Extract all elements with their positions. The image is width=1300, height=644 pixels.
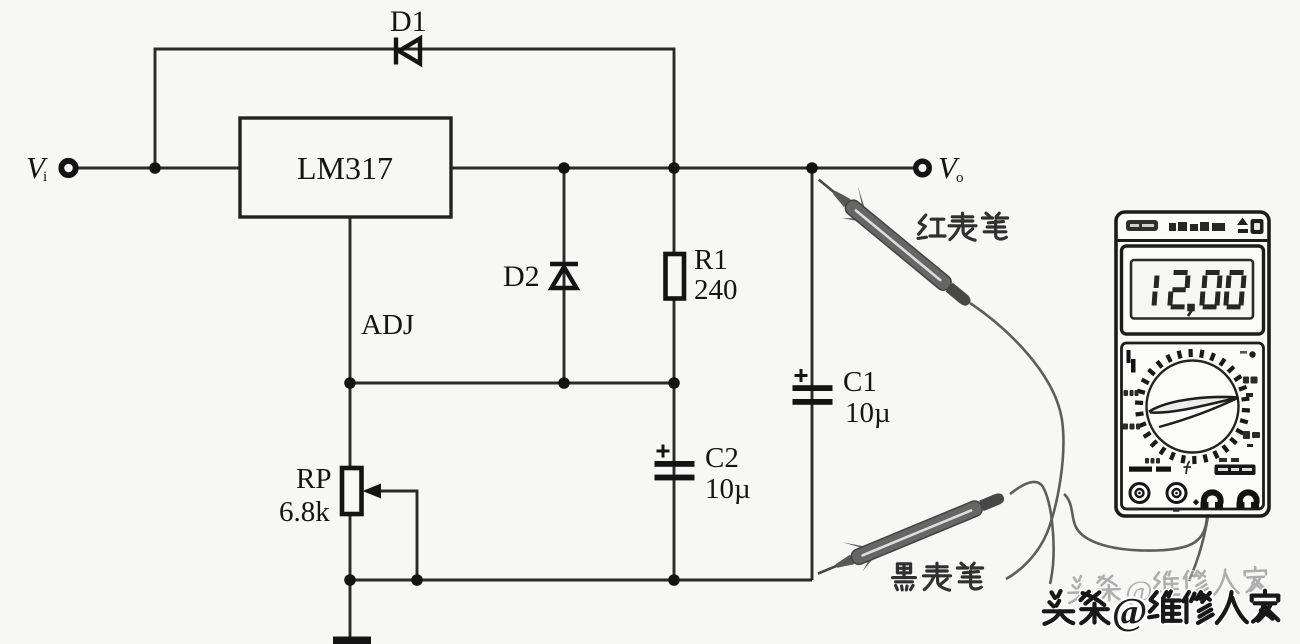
svg-text:C1: C1	[843, 366, 877, 398]
meter display bezel	[1122, 246, 1264, 334]
panel right small mark	[1247, 444, 1253, 447]
input jack 1	[1130, 484, 1149, 503]
node junction dot 6	[558, 377, 570, 389]
node junction dot 8	[344, 574, 356, 586]
svg-text:240: 240	[694, 274, 738, 306]
svg-text:i: i	[43, 169, 47, 185]
wire: meter lead loop	[1064, 494, 1207, 551]
wire: D1 bypass top rail	[155, 49, 674, 168]
LCD decimal point	[1188, 305, 1194, 316]
resistor R1	[666, 254, 685, 299]
wire: LM317 ADJ pin down	[349, 217, 352, 468]
wire: main horizontal rail Vi to LM317	[78, 167, 240, 170]
bar under 10A	[1129, 467, 1152, 472]
black test probe	[810, 478, 1009, 587]
node junction dot 2	[558, 162, 570, 174]
RP wiper arrow	[363, 484, 382, 499]
terminal Vi	[61, 161, 75, 175]
label 10A	[1145, 458, 1160, 464]
op-amp/regulator U1 LM317 box	[240, 118, 451, 217]
svg-text:D2: D2	[503, 260, 540, 293]
panel right text V~	[1243, 431, 1260, 439]
C1 plus sign	[795, 369, 808, 382]
capacitor C2 plates	[655, 461, 695, 480]
meter lower panel	[1122, 343, 1264, 509]
svg-text:ADJ: ADJ	[361, 309, 414, 341]
input jack 2	[1167, 484, 1186, 503]
panel left bars	[1127, 350, 1131, 363]
LCD digit 1	[1154, 276, 1157, 306]
LCD digit 0	[1202, 273, 1220, 307]
dial knob	[1147, 361, 1239, 453]
dark watermark tou tiao @ wei xiu ren jia	[1044, 591, 1279, 633]
diamond mark	[1193, 499, 1199, 505]
panel right text hFE	[1243, 377, 1258, 384]
banana jack V	[1204, 492, 1221, 505]
wire: main horizontal rail LM317 to Vo	[451, 167, 913, 170]
multimeter body	[1116, 212, 1269, 516]
wire: C2 branch vertical	[673, 383, 676, 580]
banana jack COM	[1240, 492, 1257, 505]
meter brand text blobs	[1169, 222, 1225, 231]
C2 plus sign	[657, 445, 670, 458]
wire: meter lead lower	[1189, 509, 1209, 581]
wire: red probe cable	[970, 303, 1063, 579]
terminal Vo	[916, 161, 930, 175]
wire: RP bottom to ground	[349, 514, 352, 637]
meter LCD	[1131, 260, 1253, 319]
LCD digit 2	[1170, 273, 1188, 307]
panel left text mA	[1122, 424, 1140, 430]
svg-text:o: o	[956, 170, 964, 186]
diode D2	[550, 264, 578, 288]
panel left text DCA	[1124, 390, 1139, 396]
label black probe (hei biao bi)	[893, 563, 983, 590]
meter power triangle	[1237, 218, 1248, 226]
potentiometer RP	[342, 468, 362, 514]
label red probe (hong biao bi)	[918, 213, 1008, 240]
svg-text:R1: R1	[694, 244, 728, 276]
svg-text:RP: RP	[296, 463, 331, 495]
F symbol	[1184, 462, 1192, 475]
meter power switch	[1251, 219, 1264, 234]
node junction dot 10	[668, 574, 680, 586]
node junction dot 4	[806, 162, 818, 174]
node junction dot 3	[668, 162, 680, 174]
wire: black probe cable	[1010, 482, 1054, 584]
svg-text:C2: C2	[705, 442, 739, 474]
svg-text:10µ: 10µ	[705, 473, 751, 505]
wire: bottom ground rail	[350, 579, 812, 582]
ground symbol	[333, 637, 371, 644]
wire: ADJ horizontal to R1/C2 node	[350, 382, 674, 385]
meter header separator	[1116, 239, 1269, 242]
wire: R1 branch vertical	[673, 168, 676, 383]
svg-text:D1: D1	[390, 5, 427, 38]
dial pointer	[1150, 397, 1239, 413]
meter header label pill	[1126, 220, 1158, 231]
light watermark tou tiao @ wei xiu ren jia	[1068, 567, 1268, 612]
PNP NPN text	[1219, 458, 1239, 462]
red test probe	[809, 164, 982, 315]
wire: RP wiper to bottom rail	[377, 491, 417, 580]
dark pill	[1215, 465, 1256, 476]
node junction dot 7	[668, 377, 680, 389]
panel right tick	[1246, 393, 1253, 397]
svg-text:@: @	[1112, 591, 1147, 633]
diode D1	[396, 38, 420, 65]
wire: D2 branch vertical	[563, 168, 566, 383]
wire: C1 branch vertical	[811, 168, 814, 580]
capacitor C1 plates	[793, 385, 833, 405]
LCD digit 0b	[1226, 273, 1244, 307]
svg-text:6.8k: 6.8k	[279, 496, 330, 528]
svg-text:10µ: 10µ	[845, 397, 891, 429]
svg-text:LM317: LM317	[297, 150, 393, 186]
jack labels	[1128, 508, 1180, 512]
dial tick ring	[1135, 349, 1250, 464]
node junction dot 9	[411, 574, 423, 586]
node junction dot 5	[344, 377, 356, 389]
node junction dot 1	[149, 162, 161, 174]
panel indicator dot	[1249, 351, 1255, 357]
